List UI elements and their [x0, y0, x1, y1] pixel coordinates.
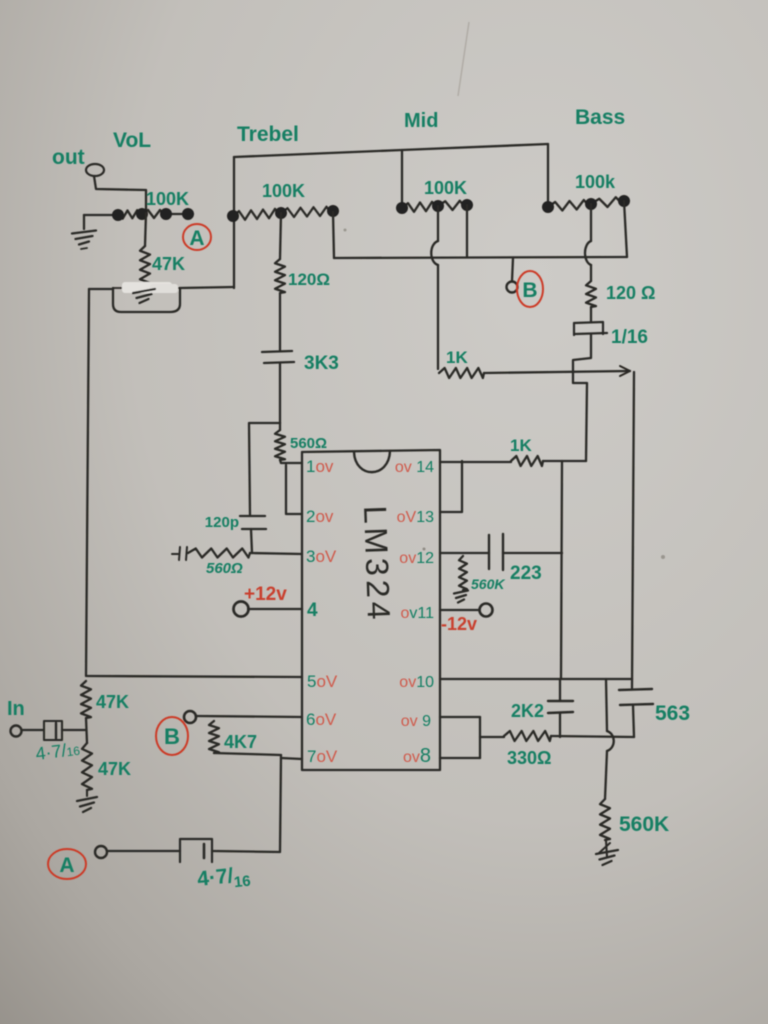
node B marker (red circle) — [517, 271, 543, 307]
wire 560R to pin 3 — [250, 553, 302, 554]
wire Trebel wiper down — [280, 213, 281, 259]
node A marker (red circle) — [183, 224, 211, 250]
svg-text:223: 223 — [510, 563, 542, 584]
svg-text:ov12: ov12 — [399, 550, 434, 567]
wire to 330R — [480, 736, 504, 738]
wire 560R to pin 1 — [280, 460, 302, 463]
wire pin 5 to input node — [87, 676, 302, 677]
capacitor 4.7/16 (node A) — [180, 839, 212, 862]
potentiometer TREBLE 100K — [233, 209, 281, 220]
svg-text:ov10: ov10 — [399, 674, 434, 691]
resistor 47K (upper, to pin5 net) — [81, 681, 91, 718]
svg-text:120 Ω: 120 Ω — [606, 283, 655, 303]
capacitor 223 — [489, 534, 503, 570]
wire pins 8-9 vertical — [479, 717, 481, 758]
wire 563 to bottom bus — [633, 705, 634, 737]
resistor 1K (pin14 feedback) — [511, 456, 543, 466]
wire top bus to Mid left terminal — [401, 150, 403, 208]
svg-text:Trebel: Trebel — [237, 123, 299, 146]
wire 1K to jog vertical — [543, 460, 586, 462]
IC notch — [354, 451, 390, 472]
svg-text:ov 9: ov 9 — [401, 713, 431, 730]
capacitor 3K3 — [262, 351, 294, 363]
wire vertical x562 (pin14 net down) — [561, 461, 562, 679]
svg-text:LM324: LM324 — [357, 505, 397, 624]
wire pin 10 bus — [440, 678, 632, 680]
resistor 560K (output) — [600, 799, 610, 840]
svg-text:1K: 1K — [510, 436, 532, 455]
wire IN jack to cap — [22, 729, 43, 731]
connector node B input (open circle) — [184, 711, 196, 723]
wire mid horizontal bus y257 — [334, 257, 627, 258]
wire input cap to node — [62, 729, 86, 731]
svg-text:ov 14: ov 14 — [395, 459, 434, 476]
wire pin 13 to pin 14 net — [440, 461, 462, 512]
wire +12V to pin 4 — [248, 608, 302, 610]
wire pin 12 to 223 cap — [440, 552, 489, 554]
svg-text:100K: 100K — [146, 189, 189, 209]
capacitor 1/16 — [574, 322, 603, 335]
svg-text:47K: 47K — [98, 759, 131, 779]
wire 120p to pin3 net — [251, 529, 252, 553]
capacitor 120p — [240, 516, 266, 529]
wire pin 8 to box — [440, 757, 480, 759]
svg-text:100K: 100K — [424, 178, 467, 198]
resistor 560R (pin 3) — [188, 549, 250, 558]
svg-text:1K: 1K — [446, 348, 468, 367]
wire 2K2 bottom — [559, 713, 561, 737]
wire top bus (Trebel-Mid-Bass) — [234, 144, 548, 157]
wire right of box to Trebel left terminal — [180, 287, 234, 288]
svg-text:2ov: 2ov — [306, 507, 334, 526]
svg-text:6oV: 6oV — [306, 710, 337, 729]
svg-text:VoL: VoL — [113, 129, 151, 152]
resistor 330R — [504, 731, 551, 741]
resistor 47K (below VOL wiper) — [145, 213, 146, 246]
svg-text:A: A — [59, 854, 74, 877]
box around ground (corrected drawing) — [113, 288, 180, 312]
wire node B to pin 6 — [196, 716, 302, 717]
potentiometer VOL 100K — [84, 214, 113, 216]
svg-text:100k: 100k — [575, 172, 616, 192]
svg-text:7oV: 7oV — [307, 747, 338, 766]
connector node B (open circle) — [507, 282, 518, 293]
svg-text:120Ω: 120Ω — [288, 270, 330, 289]
resistor 47K (lower, to ground) — [82, 743, 92, 790]
wire long left vertical (box to IN stage) — [86, 289, 89, 676]
svg-text:560K: 560K — [619, 813, 669, 836]
svg-text:2K2: 2K2 — [511, 701, 544, 721]
wire Mid wiper down with hop — [437, 206, 439, 241]
svg-text:B: B — [522, 279, 537, 302]
svg-text:In: In — [7, 698, 25, 720]
wire pin1 to pin2 bracket — [286, 465, 302, 514]
resistor 560K (pin 12 to ground) — [459, 556, 467, 590]
wire 4K7 bottom to pin7 net — [214, 753, 281, 755]
svg-text:B: B — [164, 724, 180, 749]
wire pin 14 to 1K — [440, 461, 511, 463]
wire 560K drop with hop — [606, 679, 607, 731]
ground (inside box) — [133, 289, 155, 303]
connector -12V terminal — [480, 604, 493, 617]
wire VOL left terminal to ground — [83, 215, 85, 229]
wire jog from cap to pin14 net — [573, 334, 591, 461]
wire 223 to x562 vertical — [503, 552, 562, 554]
resistor 560R (above pin 1) — [279, 423, 281, 430]
svg-text:560K: 560K — [471, 576, 505, 592]
svg-text:3K3: 3K3 — [304, 353, 339, 374]
wire A cap to terminal — [107, 850, 180, 852]
wire 1K to arrow junction — [484, 371, 630, 373]
svg-text:oV13: oV13 — [397, 509, 434, 526]
ground (output 560K) — [606, 840, 607, 857]
wire Trebel right terminal down — [333, 212, 334, 258]
capacitor 2K2 — [548, 701, 573, 713]
connector IN jack — [11, 726, 22, 737]
connector J-OUT (output jack) — [86, 164, 104, 176]
wire pin 7 stub — [281, 758, 302, 759]
svg-text:ov8: ov8 — [403, 745, 431, 767]
svg-text:+12v: +12v — [244, 584, 287, 605]
arrowhead — [620, 366, 630, 376]
svg-text:out: out — [52, 146, 85, 169]
wire Mid right terminal down — [466, 205, 468, 257]
wire right tall vertical to 563 cap — [632, 372, 634, 688]
capacitor 4.7/16 (input) — [44, 721, 62, 740]
svg-text:563: 563 — [655, 702, 690, 725]
svg-text:1ov: 1ov — [306, 457, 334, 476]
node A marker (red circle, input) — [48, 849, 86, 879]
svg-text:47K: 47K — [152, 254, 185, 274]
ground (input stage) — [86, 790, 88, 796]
svg-text:47K: 47K — [96, 692, 129, 712]
svg-text:4K7: 4K7 — [224, 732, 257, 752]
wire top bus to Bass left terminal — [547, 144, 549, 207]
resistor 4K7 — [209, 721, 219, 753]
node B marker (red circle, input) — [156, 717, 188, 755]
svg-text:120p: 120p — [205, 514, 239, 531]
svg-text:100K: 100K — [262, 181, 305, 201]
resistor 120R (Bass) — [586, 281, 596, 307]
wire 330R to right bus — [551, 736, 634, 737]
svg-text:Bass: Bass — [575, 106, 625, 129]
capacitor 563 — [619, 689, 653, 705]
wire 2K2 top — [559, 679, 561, 701]
svg-text:3oV: 3oV — [306, 547, 337, 566]
connector +12V terminal — [234, 602, 249, 617]
wire 120R to 3K3 cap — [279, 293, 281, 350]
potentiometer MID 100K — [402, 202, 438, 212]
svg-text:560Ω: 560Ω — [206, 560, 243, 577]
svg-text:330Ω: 330Ω — [507, 748, 551, 768]
wire 120R to cap 1/16 — [590, 307, 592, 322]
connector node A (open circle) — [95, 846, 107, 858]
wire Bass wiper down with hop — [590, 204, 592, 241]
svg-text:-12v: -12v — [441, 614, 477, 634]
svg-text:4: 4 — [307, 600, 318, 621]
ground (VOL left) — [72, 231, 96, 245]
wire pin 11 to -12V — [440, 609, 479, 611]
wire Trebel left terminal vertical — [233, 157, 235, 288]
wire pin7 net down to A cap — [212, 755, 281, 852]
op-amp IC U1 LM324 body — [302, 450, 440, 770]
wire Bass right terminal down — [624, 201, 627, 257]
ground (560K pin12) — [454, 591, 468, 603]
svg-text:Mid: Mid — [404, 110, 438, 132]
svg-text:560Ω: 560Ω — [290, 435, 327, 452]
potentiometer BASS 100K — [548, 200, 591, 211]
svg-text:1/16: 1/16 — [611, 327, 648, 348]
wire branch to 120p — [249, 423, 280, 515]
wire out-jack to VOL wiper — [94, 176, 146, 213]
svg-text:ov11: ov11 — [400, 605, 434, 622]
svg-text:5oV: 5oV — [307, 672, 338, 691]
capacitor mark (left of 560R) — [172, 547, 187, 560]
resistor 120R (Trebel wiper) — [275, 259, 285, 293]
wire node B stub — [512, 258, 513, 281]
wire 3K3 to junction — [279, 363, 281, 423]
wire left of box — [89, 288, 113, 290]
resistor 1K (Mid wiper) — [439, 368, 484, 378]
wire pin 9 to box — [440, 716, 480, 718]
svg-text:A: A — [189, 227, 204, 250]
